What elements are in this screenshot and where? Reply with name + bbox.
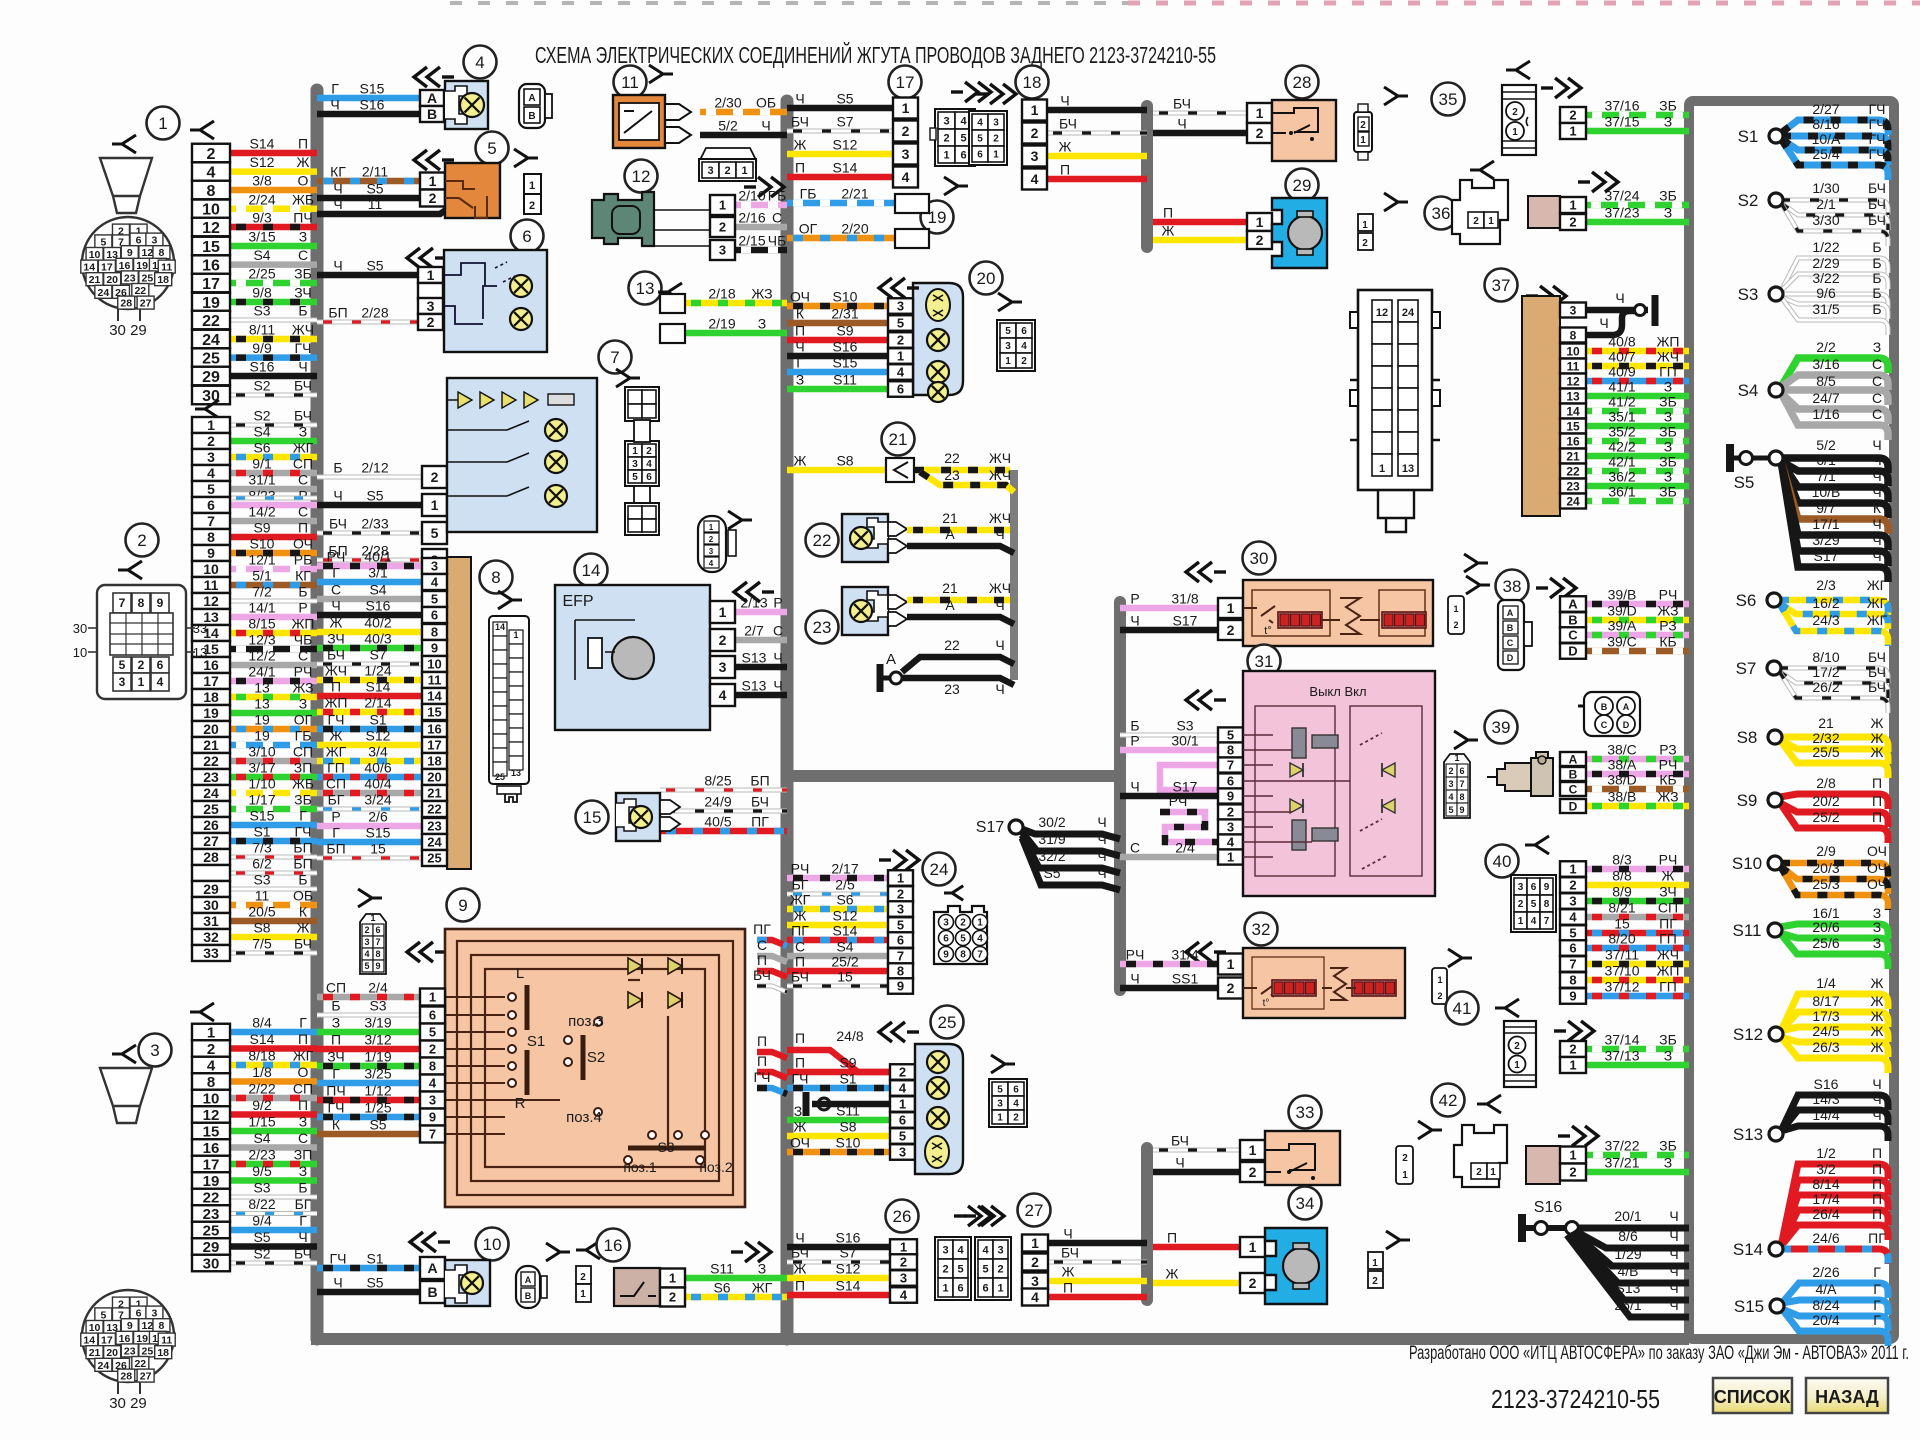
block11 pin forks [665,104,691,143]
svg-text:3: 3 [1570,303,1577,317]
svg-text:7/5: 7/5 [252,936,272,952]
block5 wire Ч 11 [317,196,458,214]
svg-text:З: З [1873,919,1881,935]
connector pin strip block7 pins [422,466,447,571]
svg-text:20/5: 20/5 [248,904,275,920]
svg-text:2: 2 [1402,1153,1408,1164]
svg-text:П: П [298,520,308,536]
svg-text:S3: S3 [1176,718,1193,734]
block24 mating icon (9 circles) [934,906,988,964]
svg-text:8: 8 [207,183,216,200]
svg-text:S7: S7 [369,647,386,663]
svg-text:5/2: 5/2 [1816,437,1836,453]
svg-text:11: 11 [1567,359,1580,373]
svg-text:30 29: 30 29 [109,1395,147,1412]
wire block12 wire ЧБ 2/15 [735,233,787,251]
svg-text:26/2: 26/2 [1812,679,1839,695]
svg-text:П: П [795,1278,805,1294]
connector pin strip block31 pins [1218,727,1243,864]
svg-text:ГЧ: ГЧ [1869,146,1886,162]
svg-text:4: 4 [960,115,967,127]
svg-text:ГП: ГП [327,760,345,776]
wire harness bus near blocks 30-32 [1114,602,1126,990]
wire block8 pin 8: Ж 40/2 [317,615,422,633]
wire block40 pin 6: 8/20 ГП [1586,931,1689,949]
svg-text:2: 2 [1227,980,1235,996]
wire block28 wire Ч [1153,116,1247,134]
connector 1 bell pictogram [100,158,152,213]
wire conn1 pin 19: 9/8 ЗЧ [230,285,317,303]
svg-text:3: 3 [707,165,713,177]
svg-text:4: 4 [977,934,983,945]
svg-text:П: П [757,952,767,968]
svg-text:30/1: 30/1 [1171,733,1198,749]
wire block28 wire БЧ [1153,96,1247,114]
callout circle 13 [629,272,662,305]
svg-text:4: 4 [207,164,216,181]
svg-text:2/12: 2/12 [361,460,388,476]
branch symbol fork block5 icon [514,149,538,167]
wire block37 pin 10: 40/8 ЖП [1586,334,1689,352]
svg-text:38/С: 38/С [1607,742,1637,758]
svg-text:2: 2 [1448,766,1453,776]
block9 mating connector icon [360,913,386,974]
svg-text:14: 14 [495,622,505,632]
svg-text:3/12: 3/12 [364,1032,391,1048]
svg-text:15: 15 [203,1123,220,1140]
svg-text:БЧ: БЧ [791,1245,809,1261]
svg-text:S13: S13 [742,650,767,666]
svg-text:16: 16 [202,257,220,274]
svg-text:ОЧ: ОЧ [1867,860,1887,876]
svg-text:7: 7 [897,949,904,964]
svg-text:3: 3 [150,1041,159,1060]
svg-text:2: 2 [1249,1275,1257,1291]
svg-text:9/1: 9/1 [252,456,272,472]
svg-text:2: 2 [1013,1113,1019,1124]
svg-text:2: 2 [427,314,435,330]
wire block11 wire Ч 5/2 [700,118,787,136]
wire conn1 pin 17: 2/25 ЗБ [230,266,317,284]
wire block36 wire З 37/23 [1585,205,1689,223]
svg-text:З: З [758,316,766,332]
wire block32 wire Ч SS1 [1120,971,1218,989]
svg-text:4: 4 [1448,792,1453,802]
svg-text:БГ: БГ [328,792,345,808]
svg-text:6: 6 [375,925,380,935]
svg-text:Ж: Ж [1062,1264,1075,1280]
svg-text:1: 1 [1256,214,1264,230]
svg-text:5: 5 [1448,805,1453,815]
svg-text:9: 9 [1569,989,1576,1004]
wire block8 pin 3: РЧ 40/1 [317,549,422,567]
svg-text:9: 9 [207,545,215,561]
block25 mating icon [989,1079,1027,1127]
wire block38 pin В: 39/D ЖЗ [1586,603,1689,621]
svg-text:С: С [1872,373,1882,389]
svg-text:Г: Г [299,1015,307,1031]
svg-text:2/23: 2/23 [248,1147,275,1163]
svg-text:З: З [1664,469,1672,485]
wire block17 wire Ч S5 [787,91,893,109]
arrow symbol chevrons block17 [951,82,991,102]
wire conn2 pin 8: S9 П [230,520,317,538]
wire block8 pin 10: БЧ S7 [317,647,422,665]
svg-text:7: 7 [610,348,619,367]
svg-text:27: 27 [1025,1201,1044,1220]
svg-text:НАЗАД: НАЗАД [1815,1387,1879,1407]
svg-text:2: 2 [900,1255,907,1270]
svg-text:1: 1 [902,100,910,116]
svg-text:2: 2 [724,165,730,177]
wire block24 pin 3: ЖГ S6 [787,892,888,910]
wire block7 wire БП 2/28 [317,543,422,561]
block20 mating icon [997,320,1035,371]
svg-text:2: 2 [719,220,726,235]
svg-text:2/8: 2/8 [1816,775,1836,791]
svg-text:3/22: 3/22 [1812,270,1839,286]
svg-text:КГ: КГ [295,568,311,584]
svg-text:S12: S12 [1733,1025,1763,1044]
svg-text:24: 24 [202,332,220,349]
wire block26 wire БЧ S7 [787,1245,890,1263]
svg-text:2: 2 [1453,620,1458,630]
svg-text:3: 3 [1005,341,1011,352]
svg-text:Ч: Ч [1097,848,1106,864]
svg-text:1: 1 [1372,1258,1378,1269]
svg-text:S4: S4 [253,1130,270,1146]
callout circle 28 [1286,66,1319,99]
svg-text:2: 2 [1227,805,1234,820]
svg-text:Ч: Ч [1669,1208,1678,1224]
svg-text:З: З [299,696,307,712]
svg-text:3/4: 3/4 [368,744,388,760]
svg-text:11: 11 [255,888,270,904]
svg-text:S12: S12 [836,1261,861,1277]
svg-text:S13: S13 [742,678,767,694]
svg-text:ЖЗ: ЖЗ [751,286,772,302]
svg-text:6: 6 [899,1113,906,1128]
svg-text:З: З [1873,339,1881,355]
svg-text:S11: S11 [710,1261,734,1277]
svg-text:З: З [1873,935,1881,951]
svg-text:1: 1 [207,1024,215,1041]
svg-text:S6: S6 [253,440,270,456]
svg-text:БЧ: БЧ [1868,649,1886,665]
svg-text:41/2: 41/2 [1608,394,1635,410]
svg-text:19: 19 [928,208,947,227]
wire block40 pin 5: 15 ПГ [1586,916,1689,934]
connector pin strip block39 pins [1560,752,1586,813]
svg-text:Ж: Ж [1871,744,1884,760]
svg-text:ЖЧ: ЖЧ [1657,947,1679,963]
heater relay unit 32 [1243,948,1405,1018]
svg-text:13: 13 [254,680,270,696]
wire block38 pin D: 39/С КБ [1586,634,1689,652]
svg-text:L: L [516,965,524,982]
svg-text:24/9: 24/9 [704,794,731,810]
svg-text:2/5: 2/5 [835,877,855,893]
wire conn3 pin 8: 1/8 О [230,1064,317,1082]
svg-text:S5: S5 [253,1229,270,1245]
svg-text:Ч: Ч [1872,532,1881,548]
svg-text:БП: БП [293,840,312,856]
svg-text:22: 22 [1566,464,1580,478]
svg-text:6: 6 [897,382,904,397]
svg-text:S5: S5 [366,258,383,274]
wire block40 pin 4: 8/21 СП [1586,900,1689,918]
splice S5 ground symbol [1730,444,1768,492]
branch symbol fork block11 [649,65,673,83]
svg-text:9: 9 [157,596,164,610]
svg-text:ЖГ: ЖГ [293,1048,314,1064]
svg-text:1: 1 [429,990,436,1005]
block28 mating icon [1354,104,1372,160]
svg-text:14/4: 14/4 [1812,1107,1839,1123]
wire block9 pin 3: ПЧ 1/12 [317,1083,420,1101]
svg-text:S4: S4 [1738,381,1759,400]
wire block42 wire ЗБ 37/22 [1560,1138,1689,1156]
svg-text:36/2: 36/2 [1608,469,1635,485]
wire harness bus near block 18 [1141,106,1153,247]
svg-text:7/2: 7/2 [252,584,272,600]
block21 wire 23 ЖЧ [920,467,1014,492]
svg-text:2: 2 [1476,1167,1482,1178]
svg-text:37/12: 37/12 [1604,979,1639,995]
wire conn2 pin 31: 20/5 К [230,904,317,922]
wire conn2 pin 1: S2 БЧ [230,408,317,426]
block33 mating icon [1396,1146,1413,1184]
svg-text:3/8: 3/8 [252,173,272,189]
svg-text:Г: Г [332,565,340,581]
branch symbol fork block34 icon [1386,1231,1410,1249]
wire block20 wire Ч S16 [787,339,888,357]
svg-text:4: 4 [431,575,439,590]
wire block20 wire К 2/31 [787,306,888,324]
svg-text:Ж: Ж [1662,868,1675,884]
svg-text:2/25: 2/25 [248,266,275,282]
block38 connector pictogram [1498,600,1532,670]
svg-text:3: 3 [899,1145,906,1160]
svg-text:S7: S7 [836,114,853,130]
callout circle 9 [447,889,480,922]
svg-text:8: 8 [375,949,380,959]
svg-text:19: 19 [203,1173,220,1190]
svg-text:1: 1 [1488,216,1494,227]
svg-text:2: 2 [1021,356,1027,367]
svg-text:БЧ: БЧ [1061,1245,1079,1261]
svg-text:Ж: Ж [1059,139,1072,155]
svg-text:1: 1 [207,417,215,433]
svg-text:ЖГ: ЖГ [1867,577,1888,593]
svg-text:1: 1 [431,497,439,513]
wire block16 wire З S11 [685,1261,787,1279]
svg-text:6: 6 [960,149,966,161]
svg-text:З: З [1664,379,1672,395]
svg-text:8/11: 8/11 [249,322,275,338]
svg-text:2/11: 2/11 [362,164,388,180]
wire block41 wire ЗБ 37/14 [1586,1032,1689,1050]
svg-text:2: 2 [960,918,966,929]
callout circle 41 [1446,992,1479,1025]
svg-text:СП: СП [326,980,346,996]
svg-text:22: 22 [134,1358,146,1370]
svg-text:6/2: 6/2 [252,856,272,872]
svg-text:16: 16 [119,260,131,272]
svg-text:S5: S5 [369,1117,386,1133]
block39 4-circle icon [1584,692,1640,736]
svg-text:31/1: 31/1 [248,472,275,488]
connector pin strip block38 pins [1560,596,1586,659]
svg-text:S5: S5 [366,181,383,197]
svg-text:40/3: 40/3 [364,631,391,647]
wire conn2 pin 2: S4 З [230,424,317,442]
svg-text:П: П [331,679,341,695]
svg-text:42: 42 [1439,1091,1458,1110]
svg-text:18: 18 [157,274,169,286]
svg-text:3: 3 [1448,779,1453,789]
svg-text:3/29: 3/29 [1812,532,1839,548]
wire block24 pin 9: БЧ 15 [787,969,888,987]
splice S12 [1733,975,1888,1073]
wire block31 wire Р 30/1 [1120,733,1218,751]
wire conn2 pin 9: S10 ОЧ [230,536,317,554]
svg-text:2/13: 2/13 [740,595,767,611]
svg-text:22: 22 [944,637,960,653]
svg-text:18: 18 [427,754,441,769]
svg-text:БЧ: БЧ [1868,196,1886,212]
wire block33 wire БЧ [1153,1133,1240,1151]
wire block37 pin 24: 36/1 ЗБ [1586,484,1689,502]
svg-text:30/2: 30/2 [1038,814,1065,830]
svg-text:27: 27 [140,298,152,310]
svg-text:37/22: 37/22 [1604,1138,1639,1154]
svg-text:ЗБ: ЗБ [294,792,312,808]
wire conn2 pin 19: 13 З [230,696,317,714]
svg-text:9: 9 [429,1110,436,1125]
svg-text:2: 2 [429,1042,436,1057]
svg-text:Ж: Ж [1871,993,1884,1009]
switch unit 5 [445,163,500,218]
lamp unit 15 [616,793,680,841]
connector pin strip block4 pins [420,90,444,122]
connector pin strip block40 pins [1560,861,1586,1004]
svg-text:2/24: 2/24 [248,191,275,207]
svg-text:ЗБ: ЗБ [294,266,312,282]
svg-text:Ч: Ч [333,488,342,504]
wire block25 wire З S11 [787,1103,890,1121]
svg-text:Ч: Ч [333,196,342,212]
arrow symbol chevrons block38 [1536,578,1576,598]
svg-text:Ж: Ж [1871,1023,1884,1039]
arrow symbol chevrons block20 [879,278,919,298]
wire harness bus near blocks 33-34 [1141,1148,1153,1300]
svg-text:З: З [1664,205,1672,221]
svg-text:В: В [528,111,535,122]
svg-text:РЧ: РЧ [791,861,810,877]
svg-text:8: 8 [207,529,215,545]
svg-text:12: 12 [203,593,219,609]
svg-text:14: 14 [582,561,601,580]
svg-text:Ч: Ч [773,678,782,694]
svg-text:ЗБ: ЗБ [1659,1032,1677,1048]
svg-text:S17: S17 [976,819,1005,836]
svg-text:29: 29 [203,881,219,897]
pump unit 14 (EFP) [555,585,710,730]
svg-text:2: 2 [1256,232,1264,248]
arrow symbol chevrons block41 [1554,1021,1594,1041]
svg-text:П: П [1872,1161,1882,1177]
svg-text:7: 7 [119,596,126,610]
svg-text:23: 23 [944,467,960,483]
connector 3 bell pictogram [100,1068,152,1123]
svg-text:S16: S16 [1814,1076,1839,1092]
wire harness center bus (vertical) [781,101,794,1339]
svg-text:6: 6 [157,658,164,672]
connector pin strip block9 pins [420,989,445,1143]
svg-text:поз.3: поз.3 [568,1013,604,1030]
svg-text:Б: Б [1130,718,1139,734]
svg-text:5: 5 [1531,899,1537,910]
svg-text:9: 9 [458,896,467,915]
svg-text:1: 1 [1569,198,1576,213]
wire block8 pin 4: Г 3/1 [317,565,422,583]
svg-text:12/3: 12/3 [248,632,275,648]
svg-text:П: П [757,1053,767,1069]
connector pin strip block24 pins [888,870,913,994]
svg-text:5: 5 [100,1309,106,1321]
svg-text:1: 1 [1569,1058,1576,1073]
svg-text:5: 5 [1227,728,1234,743]
svg-text:ЖП: ЖП [292,616,315,632]
wire conn2 pin 32: S8 Ж [230,920,317,938]
svg-text:Ч: Ч [1097,831,1106,847]
svg-text:1: 1 [897,871,904,886]
svg-text:С: С [1507,638,1514,648]
bus stub БЧ y986 [753,967,787,992]
wire block40 pin 9: 37/12 ГП [1586,979,1689,997]
lamp unit 23 [842,587,907,635]
svg-text:Ч: Ч [1872,484,1881,500]
svg-text:6: 6 [943,934,949,945]
svg-text:24: 24 [1566,494,1580,508]
svg-text:4: 4 [1227,835,1235,850]
svg-text:5: 5 [119,658,126,672]
svg-text:2/33: 2/33 [361,516,388,532]
svg-text:S12: S12 [250,154,275,170]
junction A wire 23 Ч [902,678,1014,697]
wire conn3 pin 23: 8/22 БГ [230,1196,317,1214]
svg-text:S15: S15 [1734,1297,1764,1316]
wire conn1 pin 4: S12 Ж [230,154,317,172]
svg-text:3: 3 [1569,894,1576,909]
block31 violet loop [1160,765,1230,790]
wire conn2 pin 22: 3/10 СП [230,744,317,762]
svg-text:20: 20 [977,269,996,288]
svg-text:5: 5 [364,961,369,971]
switch unit 31 (internals) [1243,671,1435,896]
svg-text:ЖП: ЖП [1657,334,1680,350]
svg-text:1: 1 [1227,956,1235,972]
svg-text:D: D [1507,653,1514,663]
bus stub П y971 [757,952,787,977]
svg-text:1: 1 [1569,1148,1576,1163]
wire block31 wire Б S3 [1120,718,1218,736]
arrow symbol chevrons block4 [414,67,454,87]
svg-text:29: 29 [202,369,220,386]
svg-text:8/9: 8/9 [1612,884,1632,900]
connector pin strip block5 pins [420,173,445,207]
